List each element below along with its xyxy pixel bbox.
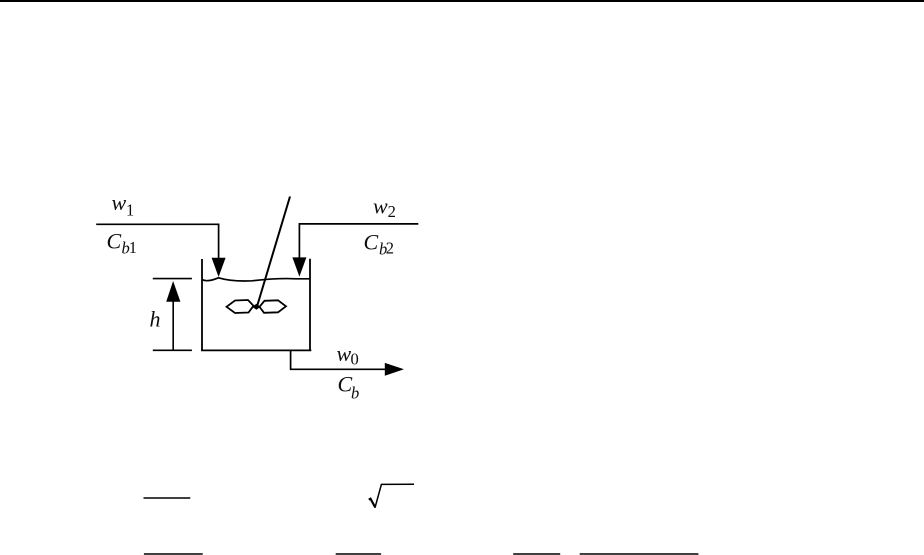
svg-text:w: w bbox=[337, 341, 352, 366]
label Cb1 bbox=[107, 229, 138, 258]
stirrer rod bbox=[257, 197, 290, 307]
w1 inlet arrowhead bbox=[212, 258, 226, 277]
stirrer right blade bbox=[260, 300, 287, 313]
outlet arrowhead bbox=[385, 363, 404, 376]
w2 inlet arrowhead bbox=[292, 257, 306, 276]
fraction bar eq2b bbox=[336, 553, 381, 555]
svg-text:2: 2 bbox=[388, 202, 396, 221]
h top tick bbox=[153, 278, 192, 280]
h arrowhead bbox=[166, 281, 180, 302]
stirrer hub bbox=[252, 304, 261, 310]
svg-text:0: 0 bbox=[351, 350, 359, 369]
fraction bar eq2c bbox=[513, 553, 560, 555]
stirrer left blade bbox=[227, 300, 254, 313]
svg-text:C: C bbox=[107, 229, 122, 254]
tank walls bbox=[201, 259, 311, 351]
liquid surface bbox=[202, 278, 310, 281]
fraction bar eq1 bbox=[144, 497, 191, 499]
svg-text:w: w bbox=[373, 194, 388, 219]
label w2 bbox=[373, 194, 396, 221]
svg-text:C: C bbox=[364, 230, 379, 255]
fraction bar eq2d bbox=[580, 553, 699, 555]
svg-text:2: 2 bbox=[386, 239, 394, 258]
label Cb bbox=[338, 372, 360, 403]
svg-text:b: b bbox=[351, 384, 359, 403]
wire w2 inlet line bbox=[299, 224, 418, 258]
h arrow line bbox=[172, 300, 174, 350]
top rule bbox=[0, 0, 924, 2]
label w1 bbox=[112, 190, 135, 219]
outlet wire bbox=[291, 350, 386, 369]
fraction bar eq2a bbox=[144, 553, 203, 555]
wire w1 inlet line bbox=[96, 224, 218, 259]
svg-text:1: 1 bbox=[129, 238, 137, 257]
radical sign bbox=[369, 499, 376, 508]
label Cb2 bbox=[364, 230, 394, 259]
svg-text:1: 1 bbox=[126, 201, 134, 220]
svg-text:w: w bbox=[112, 190, 127, 215]
h bottom tick bbox=[153, 349, 192, 351]
label w0 bbox=[337, 341, 359, 369]
svg-text:h: h bbox=[150, 307, 161, 332]
